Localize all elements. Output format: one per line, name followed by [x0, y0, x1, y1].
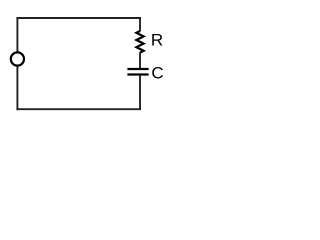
- voltage source V1: [11, 52, 24, 65]
- wire left upper: [16, 17, 18, 52]
- resistor R: [136, 31, 143, 53]
- capacitor C top plate: [127, 68, 148, 70]
- wire bottom: [16, 108, 141, 110]
- wire left lower: [16, 66, 18, 110]
- capacitor C bottom plate: [127, 73, 148, 75]
- wire right upper: [139, 17, 141, 31]
- wire top: [16, 17, 141, 19]
- svg-text:R: R: [151, 31, 163, 50]
- wire right lower: [139, 76, 141, 110]
- wire right middle: [139, 52, 141, 68]
- svg-text:C: C: [151, 63, 163, 82]
